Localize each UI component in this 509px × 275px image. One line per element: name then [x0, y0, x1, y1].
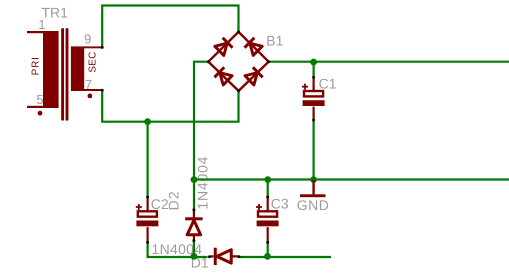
svg-text:D2: D2 [166, 190, 182, 210]
svg-text:9: 9 [84, 32, 91, 47]
svg-text:1: 1 [38, 17, 45, 32]
svg-text:1N4004: 1N4004 [195, 156, 211, 210]
svg-text:C1: C1 [319, 76, 337, 92]
svg-text:C3: C3 [271, 196, 289, 212]
svg-text:5: 5 [36, 92, 43, 107]
svg-text:GND: GND [297, 197, 330, 213]
svg-text:B1: B1 [266, 32, 283, 48]
svg-text:SEC: SEC [88, 51, 99, 72]
svg-text:PRI: PRI [31, 56, 42, 75]
